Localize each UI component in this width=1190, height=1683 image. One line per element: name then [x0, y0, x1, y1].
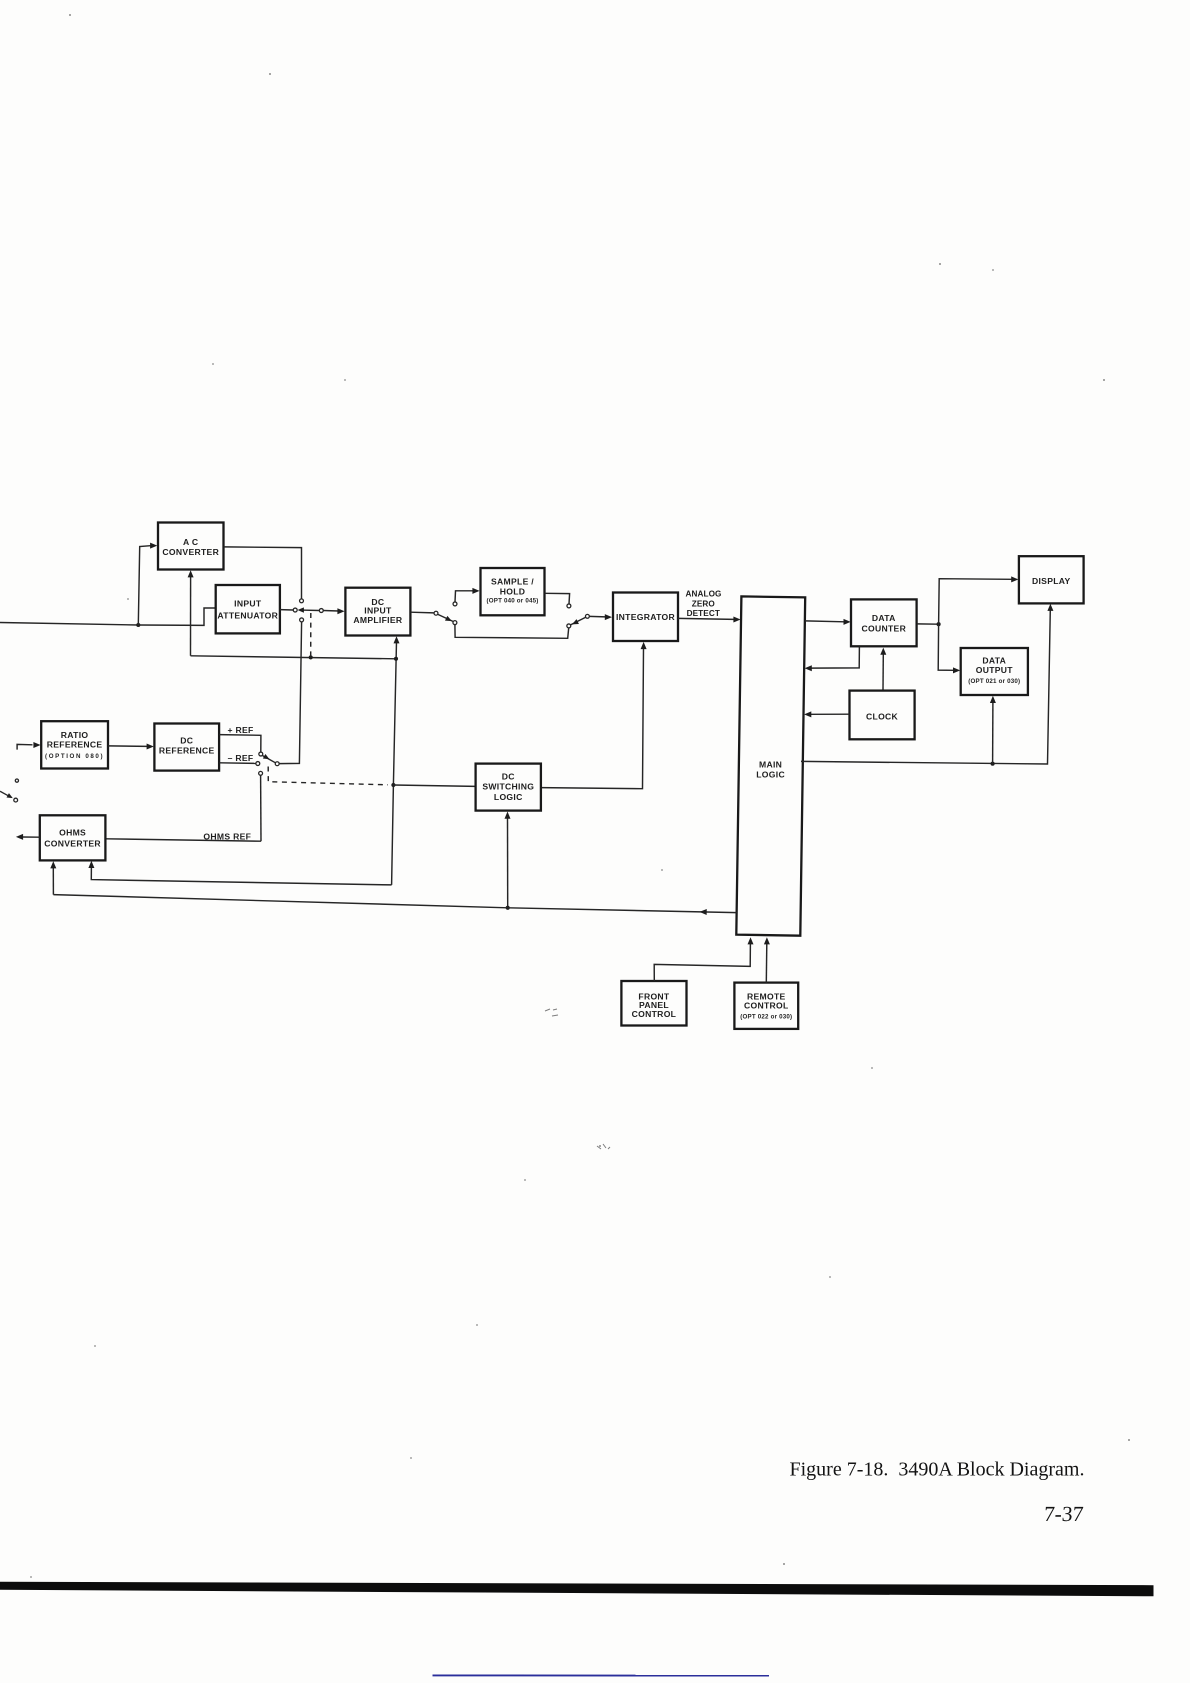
- input terminal stub lower-left: [0, 779, 19, 802]
- svg-text:SWITCHING: SWITCHING: [482, 781, 534, 791]
- wire display node to display: [939, 576, 1019, 624]
- svg-text:MAIN: MAIN: [759, 759, 782, 769]
- svg-text:AMPLIFIER: AMPLIFIER: [353, 615, 403, 625]
- block MAIN LOGIC: [736, 596, 805, 935]
- switch pole S3 (integrator in): [585, 614, 589, 618]
- switch contact S1 lower (REF): [300, 618, 304, 622]
- svg-text:DC: DC: [180, 735, 193, 745]
- wire remote control to main logic: [764, 937, 770, 982]
- block DC INPUT AMPLIFIER: [345, 588, 410, 636]
- wire ohms ref line: [106, 839, 261, 841]
- switch contact S1 output: [319, 609, 323, 613]
- wire data counter output: [917, 623, 939, 625]
- svg-text:(OPTION 080): (OPTION 080): [45, 753, 104, 760]
- wire dc switching riser into amplifier bottom: [392, 636, 400, 885]
- wire dc feedback line: [191, 656, 397, 659]
- svg-text:ZERO: ZERO: [692, 600, 716, 609]
- wire data counter to main logic: [805, 647, 860, 672]
- block DATA OUTPUT: [961, 648, 1028, 695]
- switch contact S3 upper (from S/H): [567, 604, 571, 608]
- block DISPLAY: [1019, 556, 1084, 603]
- svg-text:COUNTER: COUNTER: [862, 623, 907, 633]
- svg-text:REFERENCE: REFERENCE: [159, 745, 215, 755]
- wire front panel control to main logic: [654, 937, 753, 981]
- switch contact S4 +REF: [259, 752, 263, 756]
- wire control line up into dc switching logic: [505, 812, 511, 908]
- wire clock to data counter: [880, 648, 886, 691]
- junction control line node: [506, 906, 510, 910]
- block INTEGRATOR: [613, 593, 678, 642]
- switch wiper S2: [438, 614, 453, 621]
- wire input node to input attenuator: [138, 608, 215, 625]
- wire dc line up into AC converter bottom: [188, 570, 194, 656]
- block DC REFERENCE: [154, 724, 219, 771]
- junction dc feedback node: [394, 657, 398, 661]
- block INPUT ATTENUATOR: [216, 585, 280, 633]
- switch contact S2 upper (S/H): [453, 602, 457, 606]
- svg-text:OHMS: OHMS: [59, 828, 86, 838]
- svg-text:ANALOG: ANALOG: [685, 589, 721, 598]
- wire bypass under sample/hold: [455, 625, 569, 639]
- svg-text:LOGIC: LOGIC: [494, 792, 523, 802]
- svg-text:– REF: – REF: [228, 753, 254, 763]
- svg-text:CONVERTER: CONVERTER: [162, 547, 219, 557]
- wire dc feedback to ohms converter: [88, 861, 391, 885]
- wire ohms ref riser: [260, 775, 262, 841]
- block DATA COUNTER: [851, 599, 917, 646]
- junction dc switching node: [391, 783, 395, 787]
- wire upper contact to sample/hold input: [455, 588, 480, 602]
- wire input stub to ratio reference: [17, 742, 40, 750]
- wire amplifier output to switch pole: [411, 611, 434, 614]
- block AC CONVERTER: [158, 523, 224, 570]
- svg-text:ATTENUATOR: ATTENUATOR: [217, 610, 278, 620]
- wire main logic to data counter: [805, 619, 851, 625]
- wire display node to data output: [938, 624, 960, 673]
- svg-text:CONVERTER: CONVERTER: [44, 838, 101, 848]
- wire ratio reference to dc reference: [108, 744, 154, 750]
- svg-text:CLOCK: CLOCK: [866, 711, 899, 721]
- svg-text:RATIO: RATIO: [61, 730, 89, 740]
- wire main logic control line: [53, 895, 736, 915]
- svg-text:DISPLAY: DISPLAY: [1032, 576, 1071, 586]
- wire node to dc switching logic: [393, 785, 475, 786]
- switch pole S4 (ref select): [275, 762, 279, 766]
- switch contact S4 OHMS: [259, 771, 263, 775]
- switch wiper S1: [298, 607, 320, 612]
- wire switch S1 to DC input amplifier: [323, 608, 344, 614]
- svg-text:CONTROL: CONTROL: [632, 1009, 677, 1019]
- wire ohms converter output to input terminals: [16, 834, 40, 840]
- svg-text:OUTPUT: OUTPUT: [976, 665, 1014, 675]
- svg-text:DATA: DATA: [872, 613, 896, 623]
- wire input node to AC converter: [138, 543, 157, 625]
- wire switch S3 to integrator: [589, 614, 612, 620]
- svg-text:DC: DC: [502, 771, 515, 781]
- block SAMPLE / HOLD: [481, 568, 545, 615]
- svg-text:REFERENCE: REFERENCE: [47, 740, 103, 750]
- junction display node: [937, 622, 941, 626]
- svg-text:INTEGRATOR: INTEGRATOR: [616, 612, 676, 622]
- wire sample/hold output to upper contact: [545, 593, 570, 604]
- svg-text:(OPT 022 or 030): (OPT 022 or 030): [740, 1014, 792, 1021]
- svg-text:LOGIC: LOGIC: [756, 770, 785, 780]
- svg-text:SAMPLE /: SAMPLE /: [491, 576, 534, 586]
- scan smudge marks near front panel control: [545, 1009, 610, 1149]
- svg-text:INPUT: INPUT: [234, 599, 262, 609]
- svg-text:Figure 7-18. 3490A Block Diag: Figure 7-18. 3490A Block Diagram.: [790, 1459, 1085, 1481]
- wire clock to main logic: [804, 711, 849, 717]
- svg-text:DETECT: DETECT: [687, 609, 720, 618]
- block DC SWITCHING LOGIC: [476, 764, 541, 811]
- switch pole S2 (sample/hold in): [434, 611, 438, 615]
- svg-text:CONTROL: CONTROL: [744, 1001, 789, 1011]
- junction dashed tap on dc feedback line: [309, 655, 313, 659]
- wire REF riser from S1 lower contact: [279, 622, 302, 764]
- svg-text:+ REF: + REF: [227, 725, 253, 735]
- switch wiper S3: [571, 617, 586, 625]
- junction input node: [136, 623, 140, 627]
- svg-text:HOLD: HOLD: [500, 586, 526, 596]
- wire -REF to left contact: [219, 762, 255, 765]
- wire ganged-switch dashed drop: [310, 613, 312, 656]
- block FRONT PANEL CONTROL: [621, 981, 686, 1026]
- wire ganged dashed link to dc switching: [268, 767, 388, 785]
- switch contact S4 -REF: [256, 762, 260, 766]
- switch contact S3 lower (bypass): [567, 624, 571, 628]
- wire +REF to upper contact: [219, 735, 261, 752]
- block RATIO REFERENCE: [41, 721, 108, 768]
- wire main input from page edge: [0, 623, 138, 626]
- wire main logic to display bottom: [801, 604, 1053, 764]
- svg-text:(OPT 040 or 045): (OPT 040 or 045): [486, 598, 538, 605]
- footer separator bar: [0, 1582, 1154, 1597]
- switch wiper S4: [262, 754, 275, 763]
- svg-text:(OPT 021 or 030): (OPT 021 or 030): [968, 678, 1020, 685]
- switch pole S1 (input select): [293, 608, 297, 612]
- wire AC converter output to upper switch contact: [224, 547, 302, 599]
- switch contact S1 upper (AC): [300, 599, 304, 603]
- block OHMS CONVERTER: [40, 815, 106, 860]
- wire control line up into ohms converter: [50, 861, 56, 894]
- switch contact S2 lower (bypass): [453, 621, 457, 625]
- svg-text:A C: A C: [183, 537, 198, 547]
- wire node up to data output: [990, 696, 996, 764]
- label ANALOG ZERO DETECT: [685, 589, 721, 618]
- wire attenuator output to switch pole: [280, 609, 293, 611]
- wire dc switching logic to integrator: [541, 642, 646, 789]
- block REMOTE CONTROL: [734, 983, 798, 1029]
- wire integrator output to main logic: [678, 617, 740, 623]
- block CLOCK: [850, 691, 915, 740]
- footer rule: [433, 1674, 770, 1676]
- junction data output node: [991, 762, 995, 766]
- svg-text:7-37: 7-37: [1043, 1502, 1084, 1526]
